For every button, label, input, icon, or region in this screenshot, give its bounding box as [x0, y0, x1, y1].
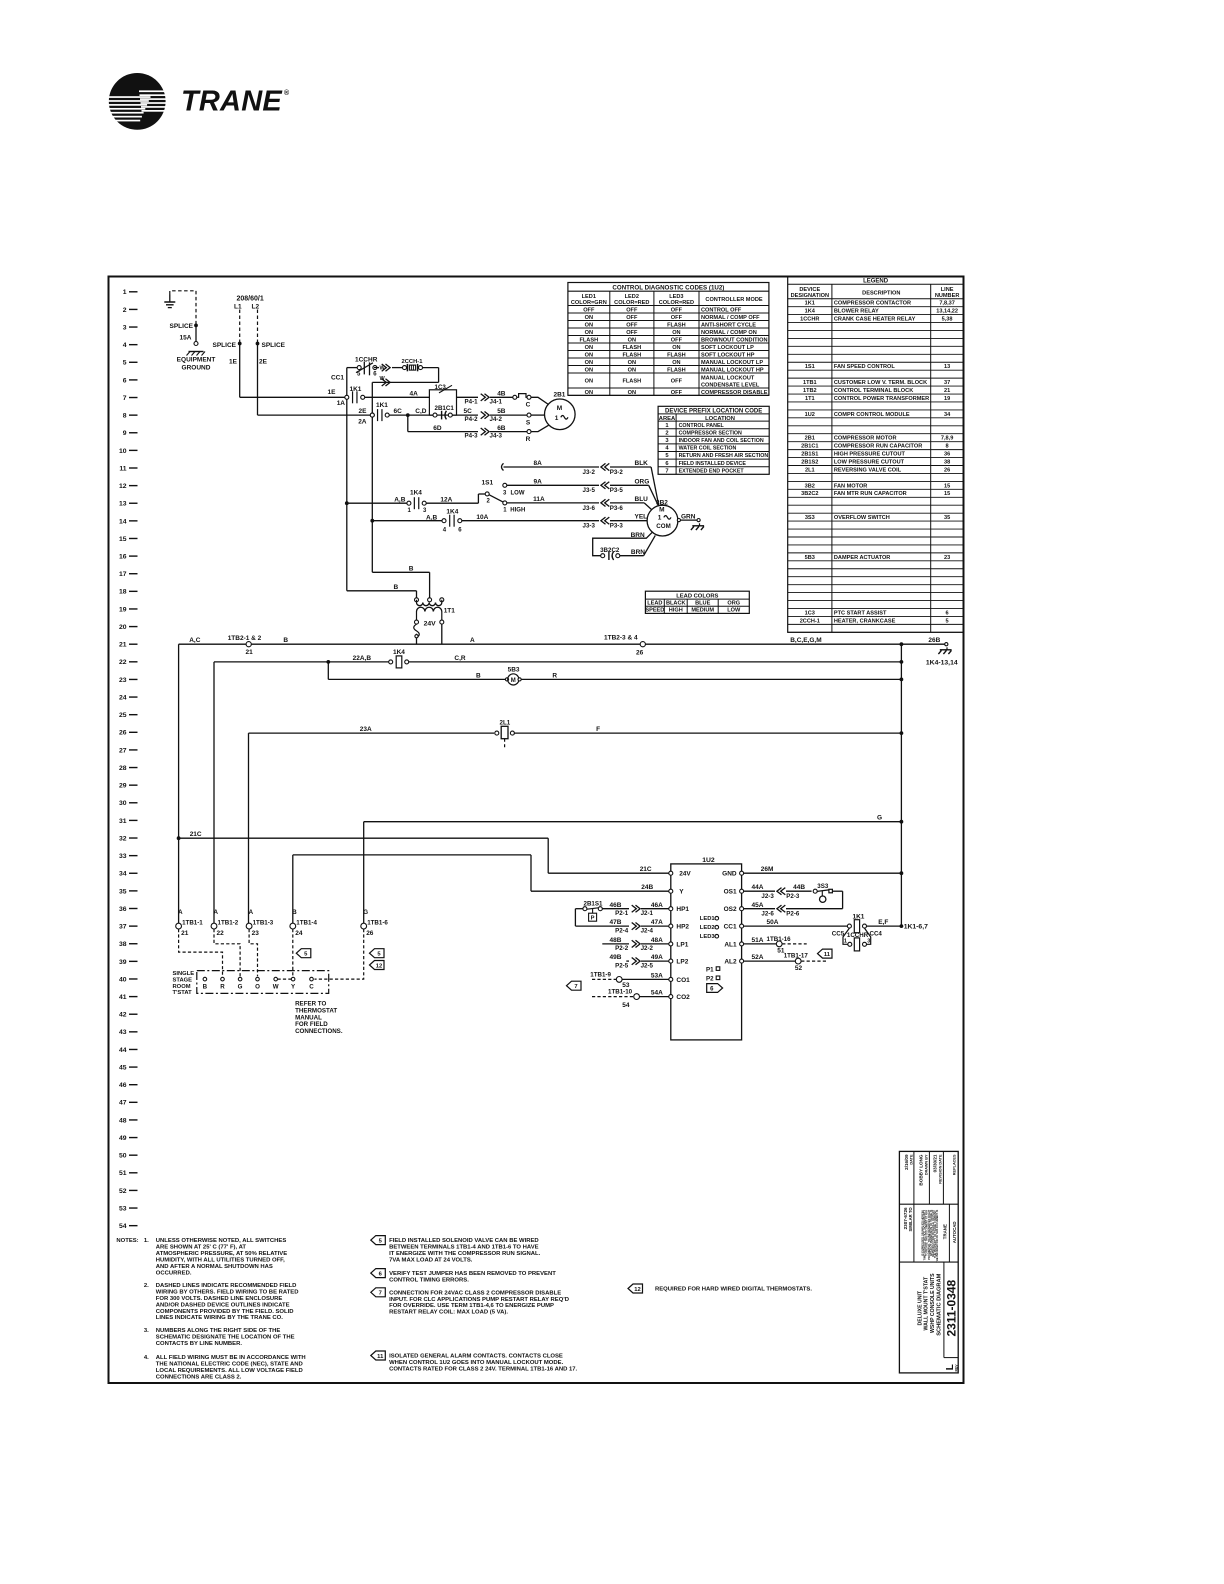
wire secondary left to line 21: [415, 635, 418, 638]
field wire 24 to Y: [292, 929, 294, 976]
svg-text:9A: 9A: [534, 478, 543, 485]
svg-text:2E: 2E: [259, 359, 268, 366]
pin HP2: [669, 924, 673, 928]
svg-text:48A: 48A: [651, 937, 663, 944]
note flag 5 (at 1TB1-4): [296, 949, 311, 958]
svg-text:LOW PRESSURE CUTOUT: LOW PRESSURE CUTOUT: [834, 459, 905, 465]
svg-text:22: 22: [217, 930, 225, 937]
field wire 23 to O: [249, 929, 257, 976]
wire line 31 G (1TB1-6 riser to right bus): [363, 822, 365, 924]
svg-text:P3-3: P3-3: [610, 523, 624, 530]
svg-text:31: 31: [119, 818, 127, 825]
plug P2-6/J2-6 chevron (left): [781, 905, 786, 912]
svg-text:38: 38: [944, 459, 950, 465]
svg-text:LP2: LP2: [676, 959, 688, 966]
svg-text:OFF: OFF: [626, 315, 638, 321]
svg-text:1S1: 1S1: [482, 479, 494, 486]
note flag 5 text: [371, 1236, 386, 1245]
svg-text:ON: ON: [672, 345, 680, 351]
svg-text:47B: 47B: [610, 919, 622, 926]
junction line13 CC1 bus: [345, 501, 349, 505]
svg-text:COMPRESSOR SECTION: COMPRESSOR SECTION: [679, 430, 742, 436]
svg-text:THE NATIONAL ELECTRIC CODE (NE: THE NATIONAL ELECTRIC CODE (NEC), STATE …: [156, 1362, 303, 1368]
pin AL2: [740, 959, 744, 963]
svg-text:P4-3: P4-3: [465, 433, 479, 440]
svg-text:Y: Y: [679, 889, 684, 896]
svg-text:1K4: 1K4: [410, 490, 422, 497]
svg-text:1TB2-1 & 2: 1TB2-1 & 2: [228, 635, 262, 642]
svg-text:CONTROL TIMING ERRORS.: CONTROL TIMING ERRORS.: [389, 1278, 469, 1284]
svg-text:C,R: C,R: [454, 655, 466, 662]
svg-text:11: 11: [824, 952, 831, 958]
svg-text:B,C,E,G,M: B,C,E,G,M: [790, 637, 821, 644]
svg-text:ON: ON: [585, 322, 593, 328]
svg-text:P2-6: P2-6: [786, 910, 800, 917]
svg-text:LEAD: LEAD: [647, 601, 662, 607]
svg-text:CC5: CC5: [832, 931, 845, 938]
svg-text:SCHEMATIC DIAGRAM: SCHEMATIC DIAGRAM: [936, 1273, 942, 1335]
svg-text:2CCH-1: 2CCH-1: [402, 359, 424, 365]
svg-text:ALL FIELD WIRING MUST BE IN AC: ALL FIELD WIRING MUST BE IN ACCORDANCE W…: [156, 1355, 306, 1361]
svg-text:AND AFTER A NORMAL SHUTDOWN HA: AND AFTER A NORMAL SHUTDOWN HAS: [156, 1264, 273, 1270]
svg-text:B: B: [476, 672, 481, 679]
wire 5B to terminal S: [490, 414, 527, 416]
svg-text:52: 52: [119, 1188, 127, 1195]
svg-text:10: 10: [119, 448, 127, 455]
svg-text:21: 21: [246, 649, 254, 656]
svg-text:P2-2: P2-2: [615, 945, 629, 952]
wire 1E: L1 down and right to line 7: [239, 344, 241, 398]
svg-text:WATER COIL SECTION: WATER COIL SECTION: [679, 446, 737, 452]
wire L1 dashed drop: [239, 310, 241, 344]
note flag 6 inside 1U2: [707, 984, 723, 993]
wire line 22 22A,B: [214, 661, 389, 663]
wire line 21 segment A: [417, 643, 641, 645]
svg-text:3: 3: [123, 324, 127, 331]
svg-text:DELUXE UNIT: DELUXE UNIT: [917, 1290, 923, 1325]
svg-text:B: B: [292, 909, 297, 916]
svg-text:MANUAL LOCKOUT: MANUAL LOCKOUT: [701, 375, 755, 381]
svg-text:FLASH: FLASH: [622, 345, 641, 351]
svg-text:27: 27: [119, 747, 127, 754]
plug J3-2/P3-2 chevron line 11: [605, 463, 610, 470]
svg-text:NUMBERS ALONG THE RIGHT SIDE O: NUMBERS ALONG THE RIGHT SIDE OF THE: [156, 1328, 281, 1334]
svg-text:NORMAL / COMP ON: NORMAL / COMP ON: [701, 330, 757, 336]
svg-text:DAMPER ACTUATOR: DAMPER ACTUATOR: [834, 555, 890, 561]
svg-text:23: 23: [119, 677, 127, 684]
svg-text:24: 24: [119, 694, 127, 701]
svg-text:1A: 1A: [337, 400, 346, 407]
svg-text:39: 39: [119, 959, 127, 966]
wire 6D line 9 drop: [407, 415, 409, 432]
svg-text:6: 6: [123, 377, 127, 384]
svg-text:SPLICE: SPLICE: [262, 342, 286, 349]
svg-text:HIGH: HIGH: [669, 608, 683, 614]
svg-text:7: 7: [123, 395, 127, 402]
svg-text:13: 13: [944, 364, 950, 370]
svg-text:J4-1: J4-1: [490, 398, 503, 405]
svg-text:2E: 2E: [359, 408, 368, 415]
svg-text:OCCURRED.: OCCURRED.: [156, 1270, 192, 1276]
svg-text:HIGH: HIGH: [510, 508, 525, 514]
svg-text:48B: 48B: [610, 937, 622, 944]
svg-text:FLASH: FLASH: [622, 352, 641, 358]
svg-text:IT ENERGIZE WITH THE COMPRESSO: IT ENERGIZE WITH THE COMPRESSOR RUN SIGN…: [389, 1251, 541, 1257]
wire 9A line 12: [507, 484, 599, 486]
svg-text:23: 23: [252, 930, 260, 937]
plug P4-3/J4-3 chevron line 9: [481, 428, 486, 435]
wire 46A to HP1: [641, 908, 669, 910]
svg-text:DASHED LINES INDICATE RECOMMEN: DASHED LINES INDICATE RECOMMENDED FIELD: [156, 1283, 297, 1289]
svg-text:12A: 12A: [440, 496, 452, 503]
svg-text:17: 17: [119, 571, 127, 578]
svg-text:7: 7: [665, 468, 668, 474]
svg-text:BOBBY LONG: BOBBY LONG: [919, 1154, 924, 1185]
svg-text:21: 21: [119, 642, 127, 649]
svg-text:MANUAL LOCKOUT LP: MANUAL LOCKOUT LP: [701, 360, 763, 366]
wire terminal S to motor: [531, 414, 545, 416]
pin OS1: [740, 889, 744, 893]
svg-text:J3-2: J3-2: [583, 469, 596, 476]
svg-text:J4-2: J4-2: [490, 416, 503, 423]
svg-text:53A: 53A: [651, 973, 663, 980]
svg-text:A: A: [470, 637, 475, 644]
svg-text:1: 1: [555, 415, 559, 422]
svg-text:2: 2: [123, 307, 127, 314]
svg-text:A,B: A,B: [394, 496, 406, 503]
svg-text:ATMOSPHERIC PRESSURE, AT 50% R: ATMOSPHERIC PRESSURE, AT 50% RELATIVE: [156, 1251, 287, 1257]
svg-text:REPLACES: REPLACES: [953, 1154, 957, 1175]
svg-text:2311-0348: 2311-0348: [945, 1279, 959, 1336]
svg-text:4.: 4.: [144, 1355, 149, 1361]
svg-text:OFF: OFF: [671, 337, 683, 343]
compressor internal overload contact: [513, 395, 517, 399]
svg-text:1E: 1E: [229, 359, 238, 366]
wire 5C line 8 to plug: [452, 414, 478, 416]
svg-text:6B: 6B: [497, 425, 506, 432]
pin 24V: [669, 871, 673, 875]
svg-text:ROOM: ROOM: [173, 984, 191, 990]
svg-text:3B2C2: 3B2C2: [801, 491, 818, 497]
switch 1S1 blade to HIGH: [489, 495, 503, 502]
svg-text:2.: 2.: [144, 1283, 149, 1289]
svg-text:14: 14: [119, 518, 127, 525]
svg-text:51: 51: [119, 1170, 127, 1177]
svg-text:24: 24: [295, 930, 303, 937]
svg-text:1TB1-1: 1TB1-1: [182, 920, 203, 927]
svg-text:8A: 8A: [534, 460, 543, 467]
svg-text:15: 15: [944, 483, 950, 489]
wire line 13 to 1K4 contact: [347, 502, 407, 504]
svg-text:ON: ON: [585, 315, 593, 321]
svg-text:1C3: 1C3: [805, 610, 815, 616]
wire 15A splice to ground terminal: [195, 325, 197, 341]
note flag 6 text: [371, 1269, 386, 1278]
wire 3S3 return to OS2: [832, 890, 842, 892]
svg-text:B: B: [283, 637, 288, 644]
plug P2-1/J2-1 chevron: [632, 905, 637, 912]
svg-text:ISOLATED GENERAL ALARM CONTACT: ISOLATED GENERAL ALARM CONTACTS. CONTACT…: [389, 1354, 563, 1360]
svg-text:R: R: [526, 436, 531, 443]
svg-text:L1: L1: [234, 304, 242, 311]
svg-text:45: 45: [119, 1064, 127, 1071]
svg-text:7: 7: [574, 984, 577, 990]
svg-text:T'STAT: T'STAT: [173, 990, 193, 996]
svg-text:P2-1: P2-1: [615, 910, 629, 917]
svg-text:P2-5: P2-5: [615, 962, 629, 969]
svg-text:1K4-13,14: 1K4-13,14: [926, 660, 958, 667]
svg-text:ORG: ORG: [727, 601, 740, 607]
svg-text:J2-5: J2-5: [641, 962, 654, 969]
svg-text:OFF: OFF: [671, 379, 683, 385]
svg-text:CONTROL PANEL: CONTROL PANEL: [679, 423, 725, 429]
svg-text:VERIFY TEST JUMPER HAS BEEN RE: VERIFY TEST JUMPER HAS BEEN REMOVED TO P…: [389, 1271, 556, 1277]
wire heater return loop: [423, 367, 439, 369]
svg-text:COMPRESSOR RUN CAPACITOR: COMPRESSOR RUN CAPACITOR: [834, 444, 922, 450]
svg-text:15: 15: [944, 491, 950, 497]
wire line 26 F to right bus: [514, 732, 902, 734]
svg-text:FLASH: FLASH: [579, 337, 598, 343]
svg-text:21C: 21C: [640, 866, 652, 873]
svg-text:37: 37: [944, 380, 950, 386]
svg-text:2B1C1: 2B1C1: [435, 405, 455, 412]
svg-text:PTC START ASSIST: PTC START ASSIST: [834, 610, 887, 616]
svg-text:CRANK CASE HEATER RELAY: CRANK CASE HEATER RELAY: [834, 316, 916, 322]
svg-text:1K4: 1K4: [393, 649, 405, 656]
wire terminal R to motor: [531, 425, 549, 431]
wire 49B line 39: [626, 960, 629, 962]
plug P2-4/J2-4 chevron: [632, 923, 637, 930]
svg-text:37: 37: [119, 924, 127, 931]
svg-text:OFF: OFF: [626, 330, 638, 336]
svg-text:COLOR=RED: COLOR=RED: [659, 300, 694, 306]
svg-text:5C: 5C: [464, 408, 473, 415]
junction line8 heater-return bus: [370, 413, 374, 417]
svg-text:1CCHR: 1CCHR: [800, 316, 819, 322]
svg-text:ANTI-SHORT CYCLE: ANTI-SHORT CYCLE: [701, 322, 756, 328]
svg-text:CONNECTIONS.: CONNECTIONS.: [295, 1028, 343, 1035]
svg-text:1: 1: [658, 514, 662, 521]
thermostat terminal C: [310, 977, 314, 981]
svg-text:3S3: 3S3: [817, 883, 829, 890]
svg-text:5: 5: [946, 618, 949, 624]
svg-text:EQUIPMENT: EQUIPMENT: [177, 357, 216, 364]
svg-text:5,38: 5,38: [942, 316, 953, 322]
svg-text:43: 43: [119, 1029, 127, 1036]
svg-text:CONTROLLER MODE: CONTROLLER MODE: [705, 297, 762, 303]
switch 1S1 pivot terminal 2: [485, 492, 489, 496]
svg-text:44A: 44A: [752, 884, 764, 891]
svg-text:J2-3: J2-3: [761, 893, 774, 900]
svg-text:ON: ON: [672, 360, 680, 366]
svg-text:RETURN AND FRESH AIR SECTION: RETURN AND FRESH AIR SECTION: [679, 453, 769, 459]
svg-text:BRN: BRN: [631, 549, 645, 556]
svg-text:CC4: CC4: [870, 931, 883, 938]
svg-text:49A: 49A: [651, 954, 663, 961]
equipment ground symbol (top): [169, 295, 171, 303]
plug J3-6/P3-6 chevron line 13: [605, 499, 610, 506]
svg-text:P4-1: P4-1: [465, 398, 479, 405]
svg-text:24V: 24V: [424, 620, 437, 627]
svg-text:CO2: CO2: [676, 994, 690, 1001]
svg-text:A,C: A,C: [189, 637, 201, 644]
svg-text:44B: 44B: [793, 884, 805, 891]
svg-text:FOR OVERRIDE. USE TERM 1TB1-4,: FOR OVERRIDE. USE TERM 1TB1-4,6 TO ENERG…: [389, 1303, 554, 1309]
svg-text:G: G: [877, 815, 882, 822]
svg-text:24B: 24B: [641, 884, 653, 891]
wire line 21 left segment A,C: [179, 643, 247, 645]
wire terminal C to motor: [531, 397, 549, 404]
svg-text:E,F: E,F: [878, 919, 888, 926]
note flag 7: [567, 981, 582, 990]
wire line 22 left riser (to 1TB1-2): [213, 662, 215, 924]
svg-text:5B3: 5B3: [508, 666, 520, 673]
svg-text:54: 54: [119, 1223, 127, 1230]
schematic line numbers 1-54: [119, 289, 138, 1230]
svg-text:1U2: 1U2: [702, 857, 715, 864]
wire line 21 segment B: [251, 643, 416, 645]
junction line14 heater-return bus: [370, 519, 374, 523]
svg-text:9: 9: [123, 430, 127, 437]
wire 8A line 11 with connector hook: [502, 463, 504, 470]
svg-text:WALL MOUNT T'STAT: WALL MOUNT T'STAT: [924, 1276, 930, 1331]
wire E,F to right bus junction 1K1-6,7: [867, 925, 902, 927]
svg-text:LOW: LOW: [727, 608, 741, 614]
svg-text:RESTART RELAY COIL: MAX LOAD (: RESTART RELAY COIL: MAX LOAD (5 VA).: [389, 1310, 508, 1316]
wire 48B line 38: [602, 943, 629, 945]
svg-text:1.: 1.: [144, 1238, 149, 1244]
wire line 23 B: [328, 678, 506, 680]
svg-text:7,8,37: 7,8,37: [939, 301, 955, 307]
svg-text:21C: 21C: [190, 831, 202, 838]
ground terminal circle: [194, 342, 198, 346]
wire 4A line 7 to 1C3: [365, 396, 430, 398]
title block: [899, 1151, 958, 1373]
svg-text:YEL: YEL: [635, 514, 648, 521]
switch 1S1 common jog: [477, 494, 479, 503]
plug P2-2/J2-2 chevron: [632, 940, 637, 947]
svg-text:MEDIUM: MEDIUM: [691, 608, 714, 614]
svg-text:B: B: [409, 566, 414, 573]
svg-text:47: 47: [119, 1100, 127, 1107]
svg-text:34: 34: [944, 412, 951, 418]
thermostat terminal B: [203, 977, 207, 981]
wire 47A to HP2: [641, 925, 669, 927]
svg-text:ON: ON: [628, 337, 636, 343]
svg-text:BRN: BRN: [631, 532, 645, 539]
svg-text:ON: ON: [585, 360, 593, 366]
svg-text:AUTOCAD: AUTOCAD: [952, 1221, 957, 1243]
svg-text:1TB1-9: 1TB1-9: [590, 971, 611, 978]
svg-text:33: 33: [119, 853, 127, 860]
svg-text:P2-4: P2-4: [615, 927, 629, 934]
svg-text:B: B: [394, 584, 399, 591]
svg-text:TRANE: TRANE: [181, 86, 283, 118]
svg-text:10A: 10A: [476, 514, 488, 521]
svg-text:IS EXPRESSED OR IMPLIED HEREIN: IS EXPRESSED OR IMPLIED HEREIN.: [921, 1210, 925, 1256]
junction right bus line 21: [900, 642, 904, 646]
svg-text:26: 26: [944, 467, 950, 473]
svg-text:COMPRESSOR MOTOR: COMPRESSOR MOTOR: [834, 436, 897, 442]
svg-text:6C: 6C: [394, 408, 403, 415]
svg-text:24V: 24V: [679, 871, 691, 878]
svg-text:MANUAL LOCKOUT HP: MANUAL LOCKOUT HP: [701, 367, 764, 373]
svg-text:7: 7: [379, 1291, 382, 1297]
wire 6C line 8: [389, 414, 433, 416]
field jumper W-Y: [278, 978, 292, 980]
svg-text:INDOOR FAN AND COIL SECTION: INDOOR FAN AND COIL SECTION: [679, 438, 764, 444]
wire to crankcase heater: [374, 367, 379, 369]
svg-text:FAN SPEED CONTROL: FAN SPEED CONTROL: [834, 364, 895, 370]
svg-text:2B1: 2B1: [805, 436, 815, 442]
svg-text:J3-5: J3-5: [583, 487, 596, 494]
right return bus vertical: [900, 644, 902, 926]
wire B primary right (from heater-return bus): [372, 571, 429, 573]
svg-text:22: 22: [119, 659, 127, 666]
svg-text:ON: ON: [628, 360, 636, 366]
svg-text:CC1: CC1: [331, 375, 344, 382]
svg-text:20: 20: [119, 624, 127, 631]
svg-text:4: 4: [123, 342, 127, 349]
svg-text:23: 23: [944, 555, 950, 561]
wire dashed from equipment ground to splice: [170, 291, 196, 326]
svg-text:1T1: 1T1: [444, 608, 456, 615]
wire 44B to 3S3: [786, 890, 812, 892]
pin HP1: [669, 907, 673, 911]
pin CO2: [669, 995, 673, 999]
svg-text:2B1S2: 2B1S2: [801, 459, 818, 465]
plug J3-5/P3-5 chevron line 12: [605, 482, 610, 489]
svg-text:52A: 52A: [752, 954, 764, 961]
svg-text:35: 35: [944, 515, 950, 521]
wire 50A CC1: [744, 925, 848, 927]
svg-text:J3-3: J3-3: [583, 523, 596, 530]
svg-text:26: 26: [366, 930, 374, 937]
svg-text:52: 52: [795, 965, 803, 972]
svg-text:CONDENSATE LEVEL: CONDENSATE LEVEL: [701, 382, 760, 388]
compressor terminal C: [527, 395, 531, 399]
fan motor GRN lead and ground: [677, 519, 680, 522]
wire CC1 vertical bus: [346, 368, 348, 591]
svg-text:P: P: [591, 916, 595, 922]
svg-text:25: 25: [119, 712, 127, 719]
svg-text:SPLICE: SPLICE: [213, 342, 237, 349]
svg-text:SIMILAR TO: SIMILAR TO: [908, 1207, 913, 1232]
svg-text:5B3: 5B3: [805, 555, 815, 561]
svg-text:REQUIRED FOR HARD WIRED DIGITA: REQUIRED FOR HARD WIRED DIGITAL THERMOST…: [655, 1287, 812, 1293]
svg-text:BROWNOUT CONDITION: BROWNOUT CONDITION: [701, 337, 768, 343]
svg-text:UNLESS OTHERWISE NOTED, ALL SW: UNLESS OTHERWISE NOTED, ALL SWITCHES: [156, 1238, 287, 1244]
field wire 22 to G: [214, 929, 240, 976]
plug P2-3/J2-3 chevron (left): [781, 888, 786, 895]
svg-text:CONTROL DIAGNOSTIC CODES (1U2): CONTROL DIAGNOSTIC CODES (1U2): [612, 284, 724, 291]
wire BLU lead to fan motor: [610, 502, 644, 504]
svg-text:EXTENDED END POCKET: EXTENDED END POCKET: [679, 468, 745, 474]
wire secondary right to line 21: [441, 624, 443, 644]
svg-text:S: S: [526, 419, 531, 426]
svg-text:GRN: GRN: [681, 513, 696, 520]
svg-text:2B1C1: 2B1C1: [801, 444, 818, 450]
svg-text:2A: 2A: [358, 418, 367, 425]
svg-text:HEATER, CRANKCASE: HEATER, CRANKCASE: [834, 618, 896, 624]
svg-text:FIELD INSTALLED SOLENOID VALVE: FIELD INSTALLED SOLENOID VALVE CAN BE WI…: [389, 1238, 539, 1244]
svg-text:P3-6: P3-6: [610, 505, 624, 512]
svg-text:1: 1: [844, 939, 847, 945]
svg-text:DATE: DATE: [910, 1154, 914, 1165]
svg-text:11: 11: [119, 465, 126, 472]
wire 4B to compressor internal overload: [490, 396, 513, 398]
svg-text:OFF: OFF: [671, 315, 683, 321]
